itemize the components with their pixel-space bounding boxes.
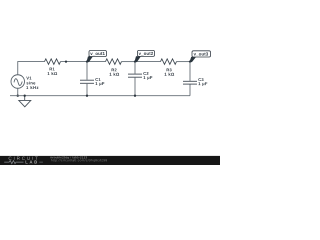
label R1: [50, 68, 55, 71]
footer bar: [0, 156, 220, 165]
footer url line: [51, 159, 107, 162]
wire R2 to node v_out2: [122, 61, 136, 63]
wire V1 top to R1: [18, 62, 45, 75]
footer logo CIRCUIT: [9, 157, 38, 160]
node v_out1 junction dot: [86, 60, 88, 62]
voltage source V1: [11, 75, 25, 89]
node flag v_out3: [189, 51, 210, 62]
capacitor C3: [183, 62, 197, 96]
label C1: [95, 78, 100, 81]
junction dot after R1: [65, 60, 67, 62]
footer credit line: [50, 156, 87, 159]
junction dot ground: [24, 95, 26, 97]
node flag v_out2: [134, 50, 154, 62]
ground: [19, 96, 31, 107]
resistor R3: [161, 59, 177, 65]
node v_out2 junction dot: [134, 60, 136, 62]
wire v_out1 to R2: [87, 61, 106, 63]
footer logo trace: [4, 161, 23, 164]
capacitor C1: [80, 62, 94, 96]
wire V1 bottom lead: [17, 88, 19, 95]
node flag v_out1: [86, 51, 106, 63]
V1 sine glyph: [14, 79, 22, 86]
footer logo LAB: [25, 161, 37, 164]
label C2: [143, 72, 148, 75]
junction dot C1 bottom: [86, 95, 88, 97]
label C3: [198, 78, 203, 81]
wire R1 to node v_out1: [61, 61, 88, 63]
resistor R1: [45, 59, 61, 65]
wire bottom rail: [10, 95, 190, 97]
resistor R2: [106, 59, 122, 65]
junction dot V1 bottom: [17, 95, 19, 97]
junction dot C2 bottom: [134, 95, 136, 97]
node v_out3 junction dot: [189, 60, 191, 62]
label R2: [112, 68, 117, 71]
label V1: [26, 77, 31, 80]
footer logo tm: [39, 161, 43, 163]
capacitor C2: [128, 62, 142, 96]
wire v_out2 to R3: [135, 61, 161, 63]
label R3: [167, 68, 172, 71]
wire R3 to node v_out3: [177, 61, 191, 63]
